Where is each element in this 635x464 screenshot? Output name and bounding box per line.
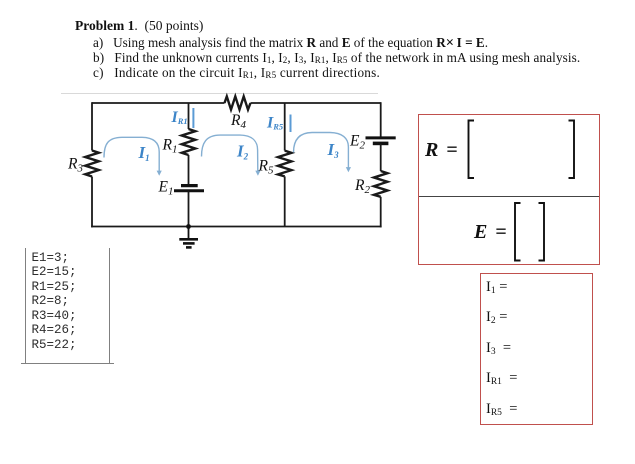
bracket right of E matrix xyxy=(539,203,545,261)
answer box currents xyxy=(480,273,593,425)
label E= xyxy=(474,222,507,242)
resistor R4 xyxy=(225,96,251,109)
battery E2 xyxy=(366,138,396,144)
item a xyxy=(93,35,488,51)
wire branch1 upper xyxy=(188,103,190,129)
bracket left of R matrix xyxy=(469,121,475,179)
current mark IR5 xyxy=(290,115,292,133)
divider in answer box xyxy=(419,196,599,197)
wire left-upper xyxy=(91,102,93,150)
resistor R2 xyxy=(374,171,388,197)
wire branch1 mid xyxy=(188,155,190,185)
battery E1 xyxy=(174,186,204,191)
faint rule under text xyxy=(61,93,378,94)
mesh current arrow I3 xyxy=(294,133,349,168)
answer box R/E matrices xyxy=(418,114,600,266)
wire right-lower xyxy=(380,197,382,228)
ground xyxy=(179,227,198,248)
wire branch1 lower xyxy=(188,192,190,227)
mesh current arrow I1 xyxy=(104,137,159,171)
wire top-left segment xyxy=(92,102,225,104)
bracket left of E matrix xyxy=(515,203,521,261)
code listing box xyxy=(25,248,111,364)
wire right-upper xyxy=(380,102,382,137)
wire branch2 lower xyxy=(284,176,286,226)
item b xyxy=(93,50,580,66)
wire top-right segment xyxy=(251,102,381,104)
wire branch2 xyxy=(284,103,286,151)
mesh current arrow I2 xyxy=(202,135,258,171)
current mark IR1 xyxy=(192,108,194,128)
item c xyxy=(93,65,380,81)
node junction at ground xyxy=(186,224,191,229)
wire bottom xyxy=(91,226,382,228)
title xyxy=(75,18,203,34)
resistor R3 xyxy=(85,151,99,177)
wire right-mid xyxy=(380,144,382,171)
resistor R5 xyxy=(278,151,292,177)
resistor R1 xyxy=(182,129,196,155)
bracket right of R matrix xyxy=(569,121,575,179)
wire left-lower xyxy=(91,177,93,228)
label R= xyxy=(425,140,458,160)
